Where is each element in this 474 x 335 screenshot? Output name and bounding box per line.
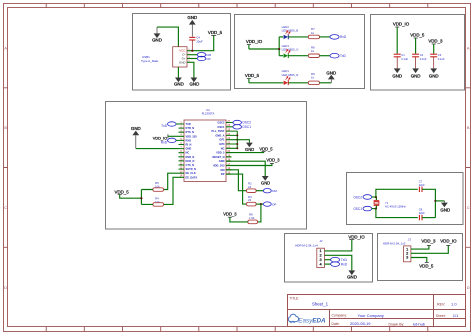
svg-text:HC-49US 12MHz: HC-49US 12MHz: [385, 205, 406, 209]
svg-text:A: A: [4, 45, 7, 50]
power flag VDD_5 (lower left): [115, 189, 142, 198]
net port DM: [197, 53, 211, 58]
svg-text:DP: DP: [272, 202, 276, 206]
svg-text:NC: NC: [186, 151, 190, 155]
ground flag GND (right of U2): [245, 143, 254, 152]
power flag VDD_3: [421, 239, 436, 246]
svg-text:VDD_IO: VDD_IO: [440, 239, 457, 244]
ground flag GND (bottom right): [190, 78, 200, 87]
svg-text:22pF: 22pF: [419, 183, 425, 187]
wire connector bottom down: [177, 67, 179, 78]
svg-text:0.1uF: 0.1uF: [438, 57, 445, 61]
svg-text:VDD_IO: VDD_IO: [393, 22, 410, 27]
svg-text:LED-0805_G: LED-0805_G: [282, 47, 300, 51]
svg-text:VDD_5: VDD_5: [410, 33, 425, 38]
svg-text:Type A_Male: Type A_Male: [141, 59, 159, 63]
power flag VDD_5: [410, 33, 425, 54]
capacitor C7: [419, 180, 425, 192]
svg-text:GND: GND: [152, 37, 162, 42]
resistor R2: [247, 181, 264, 192]
svg-text:GP0: GP0: [219, 142, 225, 146]
svg-text:VDD_3: VDD_3: [421, 239, 436, 244]
svg-text:DM: DM: [272, 189, 277, 193]
LED4 LED-0805_G: [279, 44, 308, 58]
power flag VDD_IO: [440, 239, 457, 246]
wire pin1 to VDD_IO: [325, 240, 352, 251]
wire pin4: [325, 263, 331, 265]
capacitor C2: [412, 53, 427, 68]
svg-text:VDD_5: VDD_5: [216, 151, 225, 155]
ground flag GND (top of box1, pointing up): [187, 15, 197, 37]
svg-text:GND: GND: [219, 159, 225, 163]
resistor R4: [153, 196, 164, 206]
svg-text:EE_DATA: EE_DATA: [186, 175, 198, 179]
svg-text:VDD_5: VDD_5: [419, 263, 434, 268]
wire DP to R3: [226, 174, 247, 204]
wire GND flag to U2 GND pin: [136, 148, 179, 150]
svg-text:HDR-M-2.54_1x4: HDR-M-2.54_1x4: [295, 243, 318, 247]
svg-text:Your Company: Your Company: [358, 313, 384, 318]
capacitor C3: [430, 53, 445, 68]
wire top loop: [376, 189, 418, 197]
svg-text:RESET_N: RESET_N: [213, 155, 225, 159]
svg-text:TXD: TXD: [186, 122, 191, 126]
connector USB1 Type A_Male: [141, 47, 187, 67]
svg-text:J2: J2: [320, 239, 323, 243]
svg-text:0.1uF: 0.1uF: [401, 57, 408, 61]
svg-text:GND: GND: [186, 147, 192, 151]
svg-text:VDD_5: VDD_5: [259, 147, 273, 152]
EasyEDA logo: [288, 314, 326, 324]
wire from left GND to connector shield: [157, 27, 178, 47]
ground flag GND: [429, 68, 439, 78]
svg-text:HDR-M-2.54_1x3: HDR-M-2.54_1x3: [383, 242, 406, 246]
crystal Y1 HC-49US 12MHz: [374, 197, 407, 209]
junction OSC2: [375, 196, 377, 198]
svg-text:PL2303TA: PL2303TA: [202, 112, 215, 116]
svg-text:PLL_TEST: PLL_TEST: [212, 129, 225, 133]
ground flag GND (lower right of U2): [261, 176, 270, 185]
net port TxD: [331, 257, 348, 262]
LED2 LED-0805_B: [279, 25, 308, 40]
svg-text:C: C: [4, 205, 7, 210]
resistor R7: [308, 27, 330, 39]
wire R5/R4 left rail: [141, 190, 153, 205]
connector J2 HDR-M-2.54_1x4: [295, 239, 324, 267]
net port OSC1: [353, 206, 376, 211]
svg-text:NC: NC: [221, 146, 225, 150]
ground flag GND (pointing up): [326, 70, 336, 82]
U2 left pin numbers: [180, 121, 183, 177]
wire VDD_5 net (right): [226, 152, 264, 153]
junction (VCC / C4): [191, 50, 193, 52]
svg-text:D: D: [4, 285, 7, 290]
U2 right pin labels: [212, 121, 226, 177]
svg-text:Sheet:: Sheet:: [436, 314, 446, 318]
title block borders: [288, 295, 466, 327]
ground flag GND: [392, 68, 402, 78]
wire D+: [187, 58, 197, 60]
svg-text:GND: GND: [411, 74, 421, 79]
svg-text:1.5k: 1.5k: [249, 216, 255, 220]
U2 right pin numbers: [227, 120, 230, 175]
svg-text:RI_N: RI_N: [186, 143, 192, 147]
ground flag GND: [411, 68, 421, 78]
svg-text:GND: GND: [347, 274, 357, 279]
svg-text:C8: C8: [419, 207, 423, 211]
net port OSC2: [353, 195, 376, 200]
power flag VDD_3: [428, 39, 443, 54]
svg-text:B: B: [467, 125, 470, 130]
svg-text:GND: GND: [131, 126, 141, 131]
svg-text:C7: C7: [419, 180, 423, 184]
power flag VDD_3 (bottom): [223, 212, 248, 222]
U2 left pin stubs: [179, 124, 185, 177]
wire GND net (right): [226, 161, 265, 176]
svg-text:REV:: REV:: [437, 302, 445, 306]
wire pin3 to VDD_5: [411, 258, 427, 263]
svg-text:LED-0805_R: LED-0805_R: [282, 73, 299, 77]
svg-text:VDD_IO: VDD_IO: [348, 235, 365, 240]
resistor R5: [153, 181, 164, 191]
svg-text:22: 22: [248, 198, 252, 202]
svg-text:OSC1: OSC1: [353, 207, 362, 211]
svg-text:DM: DM: [220, 168, 224, 172]
wire bottom loop: [376, 209, 418, 218]
wire pin3: [325, 259, 331, 261]
wire C7 to right rail: [422, 189, 435, 217]
svg-text:RxD: RxD: [161, 140, 168, 144]
wire DM to R2: [226, 170, 247, 191]
svg-text:GND: GND: [187, 15, 197, 20]
wire pin2 to VDD_IO: [411, 245, 448, 253]
wire D-: [187, 54, 197, 56]
svg-text:1/1: 1/1: [453, 313, 459, 318]
ground flag GND: [440, 201, 450, 213]
svg-text:GND: GND: [245, 147, 254, 152]
wire EE_DATA to R4: [164, 177, 179, 204]
power flag VDD_IO: [348, 235, 365, 240]
svg-text:GND: GND: [190, 82, 200, 87]
connector J3 HDR-M-2.54_1x3: [383, 237, 411, 261]
junction VDD_5 rail: [140, 197, 142, 199]
svg-text:Y1: Y1: [385, 201, 389, 205]
svg-text:OSC2: OSC2: [217, 121, 225, 125]
power flag VDD_5: [245, 73, 260, 83]
svg-text:Company:: Company:: [332, 314, 348, 318]
power flag VDD_IO (left of U2): [153, 134, 179, 140]
svg-text:GND: GND: [326, 70, 336, 75]
svg-text:CTS_N: CTS_N: [186, 163, 195, 167]
svg-text:D: D: [467, 285, 470, 290]
net port RxD: [330, 35, 347, 40]
svg-text:SHTD_N: SHTD_N: [186, 167, 197, 171]
resistor R3: [247, 195, 264, 206]
svg-text:Sheet_1: Sheet_1: [312, 301, 329, 306]
net port DP: [197, 56, 210, 61]
wire analog ground ties: [226, 131, 249, 149]
svg-text:GND: GND: [429, 74, 439, 79]
resistor R9: [308, 72, 331, 85]
svg-text:10uF: 10uF: [196, 39, 203, 43]
U2 left pin labels: [186, 122, 198, 179]
svg-text:VDD_5: VDD_5: [208, 30, 223, 35]
wire to GND: [435, 200, 444, 202]
svg-text:iot-hub: iot-hub: [413, 321, 426, 326]
wire pin2 to GND: [325, 255, 352, 270]
svg-text:C: C: [467, 205, 470, 210]
svg-text:1.0: 1.0: [451, 301, 457, 306]
resistor R6: [308, 45, 330, 57]
svg-text:DTR_N: DTR_N: [186, 126, 195, 130]
svg-text:GND: GND: [392, 74, 402, 79]
junction OSC1: [375, 208, 377, 210]
svg-text:B: B: [4, 125, 7, 130]
svg-text:RXD: RXD: [186, 138, 192, 142]
power flag VDD_IO: [246, 39, 263, 49]
ground flag GND (bottom left): [174, 78, 184, 87]
wire EE_CLK to R5: [164, 173, 179, 189]
svg-text:GP1: GP1: [219, 138, 225, 142]
USB1 pin numbers: [188, 49, 190, 63]
net port OSC1 (right of U2): [231, 125, 251, 129]
svg-text:A: A: [467, 45, 470, 50]
svg-text:EE_CLK: EE_CLK: [186, 171, 196, 175]
power flag VDD_5: [419, 262, 434, 268]
svg-text:DP: DP: [207, 57, 211, 61]
svg-text:C2: C2: [420, 53, 424, 57]
ground flag GND (upper left, pointing up): [131, 126, 141, 149]
svg-text:0.1uF: 0.1uF: [420, 57, 427, 61]
svg-text:GND: GND: [440, 208, 450, 213]
net port OSC2 (right of U2): [231, 120, 251, 124]
svg-text:RxD: RxD: [340, 35, 347, 39]
capacitor C4: [189, 36, 203, 51]
svg-text:Date:: Date:: [332, 322, 340, 326]
wire VCC to VDD_5: [187, 35, 214, 50]
module boxes: [106, 14, 465, 283]
net port DP (right): [263, 202, 276, 206]
svg-text:3: 3: [406, 255, 408, 260]
svg-text:TxD: TxD: [161, 124, 168, 128]
svg-text:22: 22: [248, 185, 252, 189]
U2 right pin stubs: [226, 123, 231, 175]
capacitor C8: [419, 207, 425, 220]
svg-text:U2: U2: [206, 108, 210, 112]
svg-text:VDD_5: VDD_5: [245, 73, 260, 78]
junction right rail: [434, 200, 436, 202]
svg-text:TxD: TxD: [341, 258, 348, 262]
svg-text:TITLE:: TITLE:: [290, 296, 300, 300]
ground flag GND: [347, 270, 357, 279]
power flag VDD_5 (right): [259, 147, 273, 152]
ground flag GND (left, pointing down): [152, 27, 162, 42]
net port RxD (left of U2): [161, 138, 179, 144]
svg-text:Drawn By:: Drawn By:: [389, 322, 405, 326]
svg-text:C3: C3: [438, 53, 442, 57]
junction: [278, 48, 280, 50]
svg-text:GND: GND: [179, 60, 187, 64]
svg-text:2020-05-19: 2020-05-19: [350, 321, 371, 326]
net port DM (right): [263, 189, 277, 193]
LED1 LED-0805_R: [249, 69, 308, 85]
wire VDD_IO to LED split: [249, 37, 279, 56]
svg-text:DCD_N: DCD_N: [186, 159, 195, 163]
svg-text:VDD_IO: VDD_IO: [246, 39, 263, 44]
svg-text:GND: GND: [261, 180, 270, 185]
svg-text:OSC1: OSC1: [217, 125, 225, 129]
capacitor C1: [394, 53, 409, 68]
net port RxD: [331, 262, 348, 267]
svg-text:DP: DP: [221, 172, 225, 176]
svg-text:VDD_3: VDD_3: [266, 158, 280, 163]
svg-text:RTS_N: RTS_N: [186, 130, 195, 134]
svg-text:DSR_N: DSR_N: [186, 155, 195, 159]
power flag VDD_IO: [393, 22, 410, 54]
IC U2 PL2303TA body: [184, 108, 226, 182]
net port TxD (left of U2): [161, 122, 178, 128]
svg-text:VDD_3: VDD_3: [223, 212, 237, 217]
wire pin1 to VDD_3: [411, 245, 429, 249]
U2 RESET_N stub: [226, 156, 231, 158]
svg-text:VDD_3: VDD_3: [428, 39, 443, 44]
svg-text:22pF: 22pF: [419, 211, 425, 215]
svg-text:VDD_3V3: VDD_3V3: [213, 164, 225, 168]
svg-text:GND_A: GND_A: [215, 133, 224, 137]
svg-text:GND: GND: [174, 82, 184, 87]
power flag VDD_3 (right): [266, 158, 280, 164]
svg-text:VDD_5: VDD_5: [115, 189, 130, 194]
svg-text:OSC1: OSC1: [242, 125, 251, 129]
wire VDD_3V3 net: [226, 163, 272, 165]
svg-text:TxD: TxD: [340, 54, 347, 58]
power flag VDD_5: [208, 30, 223, 35]
resistor R8: [248, 213, 258, 224]
svg-text:VDD_325: VDD_325: [186, 134, 198, 138]
wire GND pin down: [187, 62, 194, 77]
svg-text:C1: C1: [401, 53, 405, 57]
svg-text:J3: J3: [408, 237, 411, 241]
wire C8 to right rail: [422, 217, 435, 219]
svg-text:RxD: RxD: [341, 263, 348, 267]
wire R8 rail: [258, 204, 261, 222]
net port TxD: [330, 53, 347, 58]
svg-text:EasyEDA: EasyEDA: [298, 318, 326, 325]
junction DP/R8: [260, 203, 262, 205]
svg-text:OSC2: OSC2: [353, 195, 362, 199]
